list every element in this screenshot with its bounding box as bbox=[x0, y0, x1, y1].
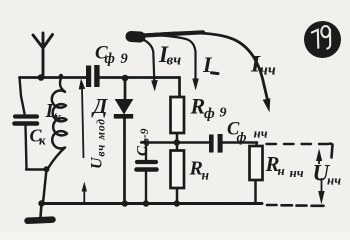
resistor Rnnch bbox=[250, 146, 263, 180]
wire tank bottom drop bbox=[43, 170, 47, 204]
svg-text:к: к bbox=[39, 133, 46, 148]
svg-text:9: 9 bbox=[121, 51, 128, 67]
capacitor Cfnch plates bbox=[209, 135, 214, 153]
label I= bbox=[202, 52, 218, 77]
svg-text:ф: ф bbox=[105, 51, 115, 67]
svg-text:н: н bbox=[202, 168, 210, 183]
node wire bbox=[141, 141, 209, 143]
ink blob bbox=[131, 31, 140, 43]
label Lk bbox=[45, 101, 62, 124]
antenna bbox=[33, 33, 53, 77]
ground bbox=[28, 220, 53, 221]
junction Cf9 top bbox=[144, 140, 149, 145]
svg-text:Д: Д bbox=[91, 94, 108, 118]
svg-text:к: к bbox=[55, 109, 62, 124]
svg-text:нч: нч bbox=[260, 63, 276, 79]
dashed corner right bbox=[330, 144, 333, 158]
wire Ck lead down bbox=[26, 126, 27, 169]
junction coil top bbox=[59, 74, 63, 78]
Uvch arrow short bbox=[83, 190, 85, 204]
wire left drop to Ck bbox=[20, 78, 25, 114]
junction antenna bbox=[38, 74, 45, 81]
arrow Ivch bbox=[142, 32, 270, 112]
junction node bbox=[174, 139, 180, 145]
resistor Rn bbox=[171, 151, 185, 189]
wire Rf-node lead bbox=[176, 133, 179, 151]
wire top-left segment bbox=[20, 76, 87, 79]
svg-text:нч: нч bbox=[290, 165, 304, 180]
junction rail ground bbox=[38, 200, 44, 206]
junction rail diode bbox=[122, 200, 128, 206]
wire corner into Rnnch bbox=[256, 143, 257, 147]
junction rail Cf9 bbox=[143, 200, 149, 206]
capacitor Cf9 plates bbox=[137, 160, 156, 164]
svg-text:н: н bbox=[278, 163, 285, 178]
label Cfnch bbox=[227, 120, 268, 146]
capacitor Ck bbox=[15, 114, 37, 118]
label Rn bbox=[189, 158, 210, 183]
svg-text:ф: ф bbox=[237, 131, 247, 146]
badge 19 bbox=[304, 21, 341, 58]
bottom rail bbox=[40, 202, 262, 205]
label Rnnch bbox=[265, 152, 304, 180]
arrow Inch bbox=[142, 33, 267, 99]
Cf9 branch upper lead bbox=[145, 143, 147, 161]
svg-text:нч: нч bbox=[254, 126, 268, 141]
bottom rail dashes bbox=[267, 204, 324, 207]
svg-text:нч: нч bbox=[327, 173, 341, 188]
Cf9 lower lead bbox=[145, 172, 147, 203]
resistor Rf bbox=[171, 97, 185, 133]
label Cf bbox=[95, 43, 128, 68]
inductor Lk bbox=[49, 77, 68, 168]
junction diode top bbox=[122, 75, 129, 82]
Unch double arrow bbox=[316, 149, 325, 205]
diode branch wire lower bbox=[123, 119, 126, 204]
dashed output top bbox=[267, 143, 331, 145]
capacitor Cf series plates bbox=[38, 65, 223, 207]
diode branch wire upper bbox=[124, 78, 127, 99]
label Unch bbox=[313, 161, 342, 188]
label Inch bbox=[250, 52, 276, 79]
label Ivch bbox=[158, 42, 181, 69]
svg-text:9: 9 bbox=[220, 106, 227, 121]
ground stub bbox=[41, 204, 42, 217]
junction tank bottom bbox=[44, 166, 50, 172]
wire Rn bottom lead bbox=[176, 188, 179, 203]
wire Ck bottom horizontal bbox=[26, 168, 46, 170]
wire Rf top lead bbox=[178, 78, 181, 98]
junction rail Rn bbox=[174, 200, 180, 206]
svg-text:вч: вч bbox=[167, 53, 182, 69]
label Ck bbox=[30, 126, 47, 148]
diode D bbox=[114, 100, 133, 119]
wire top-mid segment bbox=[99, 76, 180, 79]
Uvch arrow long bbox=[79, 79, 87, 204]
svg-text:R: R bbox=[190, 94, 206, 119]
wire node to Cfnch bbox=[223, 141, 258, 143]
label Rf bbox=[190, 94, 227, 123]
wire Rnnch bottom lead bbox=[254, 180, 257, 203]
arrow I= bbox=[144, 35, 196, 80]
svg-text:ф: ф bbox=[204, 106, 215, 122]
